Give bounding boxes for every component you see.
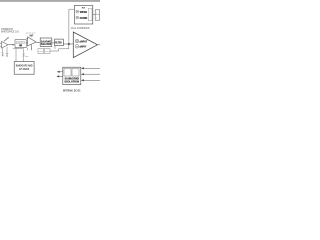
wire U2 output [36, 41, 40, 43]
wire dc-dc out left 1 [57, 71, 63, 73]
wire trim boxes to junction [50, 44, 69, 51]
wire dc-dc in right 3 [81, 79, 100, 81]
svg-text:DOWN: DOWN [80, 16, 87, 20]
op-amp U3 (main output amp) [73, 32, 97, 58]
node clk tap glyph [23, 53, 25, 56]
wire junction up to control box [69, 9, 75, 44]
op-amp U1 (left small amp) [0, 37, 9, 48]
wire mux to amp inputs [26, 38, 28, 43]
node junction [68, 43, 70, 45]
wire dc-dc in right 1 [81, 67, 100, 69]
wire galvanic to filter [52, 42, 55, 44]
svg-text:xINPUT: xINPUT [79, 45, 86, 49]
svg-text:ISOLATION: ISOLATION [65, 80, 80, 84]
svg-text:xxx: xxx [25, 56, 28, 58]
bandgap box [14, 62, 34, 75]
pin circle P2 [76, 16, 79, 19]
svg-text:FILTER: FILTER [55, 40, 62, 44]
svg-text:xxxx: xxxx [45, 51, 49, 53]
wire U1 output with arrow [8, 44, 15, 46]
dc-dc box [63, 67, 81, 84]
wire U3 output [98, 44, 101, 46]
top toolbar bar [0, 0, 100, 2]
svg-text:ISOLATION: ISOLATION [41, 42, 51, 46]
galvanic isolation box [40, 38, 52, 46]
filter box [55, 39, 64, 46]
pin circle P1 [76, 10, 79, 13]
wire filter to main amp [63, 43, 73, 45]
svg-text:xINPUT: xINPUT [79, 39, 87, 43]
label above mid amp [26, 33, 36, 38]
trim boxes under isolation [38, 49, 50, 54]
ground (right) [6, 53, 8, 56]
wire control box to port [93, 13, 95, 15]
pin circle IN- [75, 45, 79, 49]
ground (left) [1, 53, 3, 56]
svg-text:xxxx: xxxx [39, 51, 43, 53]
svg-text:WIPER: WIPER [80, 10, 87, 14]
svg-text:LP OSCS: LP OSCS [19, 67, 29, 71]
svg-text:Vout JUMPERS: Vout JUMPERS [71, 26, 90, 30]
control box (top right) [74, 6, 92, 25]
wire dc-dc out left 2 [56, 75, 62, 77]
wire U1 bias drops [3, 47, 7, 53]
op-amp U2 (mid amp) [28, 36, 36, 51]
wire bias rail to bandgap [13, 48, 27, 62]
svg-text:INTERNAL DC-DC: INTERNAL DC-DC [63, 89, 81, 92]
svg-text:BANDGAPS AND: BANDGAPS AND [16, 63, 33, 67]
mux box (input select) [15, 40, 26, 48]
svg-text:xxxxx xxx: xxxxx xxx [26, 33, 36, 35]
background [0, 0, 100, 100]
port box (right edge) [95, 10, 99, 20]
svg-text:WHITESPACE CAL: WHITESPACE CAL [1, 30, 19, 34]
wire dc-dc in right 2 [81, 73, 100, 75]
pin circle IN+ [75, 39, 79, 43]
